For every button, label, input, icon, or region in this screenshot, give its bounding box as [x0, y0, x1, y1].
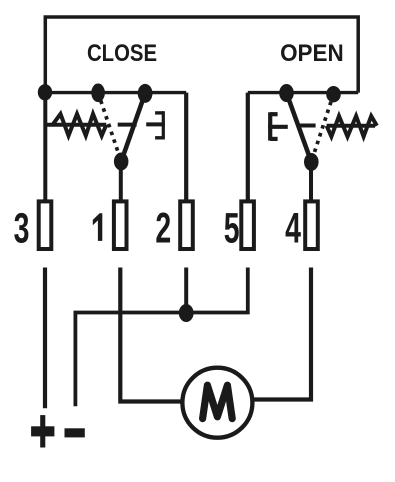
node: bus junction (terminal 2 tap): [179, 304, 194, 322]
motor M1 letter M: [203, 385, 233, 418]
node: OPEN switch common: [304, 153, 319, 171]
node: CLOSE rail left junction: [38, 84, 52, 100]
enclosure box outline: [45, 17, 358, 93]
svg-text:4: 4: [285, 204, 301, 252]
wire: stub touching CLOSE switch arm: [118, 123, 137, 127]
node: CLOSE switch common: [114, 153, 129, 171]
node: OPEN solid arm pivot: [279, 84, 294, 102]
resistor R1 (CLOSE side) through-line: [45, 123, 106, 127]
pin label 3: [14, 204, 30, 252]
label CLOSE: [87, 40, 157, 67]
switch S1 solid arm (CLOSE): [121, 93, 145, 161]
svg-text:3: 3: [14, 204, 30, 252]
wire: terminal 4 down and left to motor: [252, 268, 311, 400]
svg-text:5: 5: [224, 204, 240, 252]
resistor R2 (OPEN side) zigzag: [327, 116, 377, 137]
label OPEN: [280, 40, 344, 67]
terminal 2: [180, 201, 193, 249]
switch S2 dotted arm (OPEN): [311, 94, 333, 162]
wire: drop from CLOSE rail to terminal 2: [184, 93, 188, 201]
pin label 2: [155, 204, 171, 252]
wire: stub touching OPEN switch arm: [297, 124, 315, 128]
wire: terminal 5 down, bus left, down to - supply: [75, 268, 247, 407]
resistor R2 (OPEN side) through-line: [327, 124, 375, 128]
svg-text:CLOSE: CLOSE: [87, 40, 157, 67]
pin label 5: [224, 204, 240, 252]
pin label 1: [93, 213, 103, 241]
terminal 5: [241, 201, 254, 249]
terminal 1: [114, 201, 127, 249]
wire: terminal 2 to bus: [184, 268, 188, 314]
contact symbol (CLOSE side, mirrored-E bracket): [146, 111, 165, 139]
terminal 3: [39, 201, 52, 249]
switch S2 solid arm (OPEN): [287, 93, 312, 162]
node: CLOSE dotted arm pivot: [91, 84, 105, 103]
resistor R1 (CLOSE side) zigzag: [53, 114, 107, 136]
switch S1 dotted arm (CLOSE): [98, 93, 121, 162]
node: CLOSE solid arm pivot: [138, 84, 153, 103]
power symbol - (negative supply): [65, 428, 85, 437]
wire: enclosure left rail to terminal 3: [43, 93, 47, 201]
terminal 4: [305, 201, 318, 249]
wire: CLOSE common to terminal 1: [119, 163, 123, 201]
wire: terminal 1 down and right to motor: [120, 268, 183, 402]
power symbol + (positive supply): [31, 415, 54, 447]
wire: terminal 3 to + supply: [43, 268, 47, 409]
node: OPEN dotted arm pivot: [326, 86, 341, 102]
wire: drop from OPEN rail to terminal 5: [246, 93, 250, 201]
svg-text:OPEN: OPEN: [280, 40, 344, 67]
svg-text:2: 2: [155, 204, 171, 252]
wire: OPEN common to terminal 4: [309, 163, 313, 201]
wire: CLOSE switch horizontal rail: [45, 91, 186, 94]
motor M1 circle: [182, 368, 252, 438]
pin label 4: [285, 204, 301, 252]
contact symbol (OPEN side, E bracket): [268, 112, 288, 140]
wire: OPEN switch horizontal rail: [248, 91, 358, 94]
